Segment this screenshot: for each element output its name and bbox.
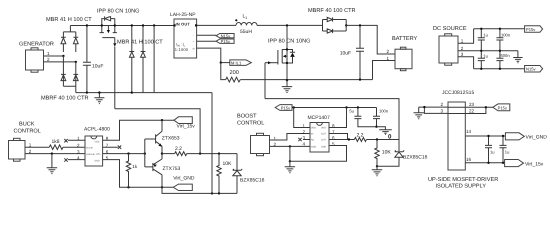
wire ACPL pin5 to Virt_GND rail (103, 160, 174, 188)
ground (dc source mid) (513, 51, 522, 63)
node caps bottom (375, 126, 377, 128)
svg-text:P15v: P15v (498, 105, 508, 110)
svg-text:Virt_GND: Virt_GND (526, 135, 548, 141)
svg-text:JCCJ0812S15: JCCJ0812S15 (442, 90, 474, 96)
node C9 top (487, 135, 489, 137)
svg-text:MCP1407: MCP1407 (308, 115, 330, 121)
wire MCP pin5 ground loop (290, 146, 347, 162)
node ZTX653 collector tap (161, 119, 163, 121)
svg-text:GND: GND (311, 146, 316, 149)
node M2 diode bottom (286, 62, 288, 64)
svg-text:1:1000: 1:1000 (175, 47, 189, 52)
svg-text:UP-SIDE MOSFET-DRIVER: UP-SIDE MOSFET-DRIVER (428, 177, 498, 183)
svg-text:3: 3 (77, 150, 80, 155)
net flag P15v (216, 39, 234, 44)
transistor M1 IPP 80 CN 10NG body diode (102, 16, 115, 25)
svg-text:IPP 80 CN 10NG: IPP 80 CN 10NG (97, 9, 140, 15)
isolated supply U4 JCCJ0812S15 (441, 90, 475, 170)
zener D9 BZX85C16 (buck) (233, 154, 265, 194)
transistor M2 IPP 80 CN 10NG (265, 25, 295, 80)
capacitor C7 5u (349, 108, 376, 127)
svg-text:MBRF 40 100 CTR: MBRF 40 100 CTR (308, 8, 356, 14)
node bridge mid-right (75, 61, 77, 63)
node MCP pin1 riser tap (293, 106, 295, 108)
diode bridge D2 (top-right) (73, 32, 78, 52)
svg-text:MBR 41 H 100 CT: MBR 41 H 100 CT (46, 17, 92, 23)
node gate riser tap (199, 152, 201, 154)
capacitor C9 1u (485, 136, 495, 163)
transistor Q2 ZTX753 (145, 154, 181, 188)
diode D7 MBRF (top) (323, 17, 347, 21)
dc source V1 (433, 26, 467, 65)
wire dc pin1 up to P15v rail (458, 29, 474, 44)
node 10K tap (218, 152, 220, 154)
wire boost pin2 to MCP pin4 (270, 145, 311, 147)
wire bridge bottom bar to bottom rail (63, 81, 75, 93)
pin7 stub with no-connect (103, 146, 122, 149)
wire ground riser (289, 146, 291, 161)
node rail tap to virtual ground riser (153, 24, 155, 26)
diode D5 MBR (left) (129, 26, 134, 93)
svg-text:GND: GND (95, 159, 100, 162)
wire M2 gate riser (264, 63, 266, 99)
wire dc pin3 down to N15v rail (458, 57, 474, 69)
svg-text:CONTROL: CONTROL (14, 129, 41, 135)
capacitor C10 1u (500, 136, 510, 163)
svg-text:1: 1 (47, 51, 50, 56)
svg-text:2.2: 2.2 (175, 146, 182, 152)
wire base riser (144, 139, 146, 167)
svg-text:Anode: Anode (86, 147, 93, 150)
svg-text:2.2: 2.2 (357, 132, 364, 138)
diode bridge D4 (bottom-right) (73, 62, 78, 81)
svg-text:10uF: 10uF (340, 51, 351, 57)
svg-text:Virt_15v: Virt_15v (177, 124, 196, 130)
wire P15v rail (474, 28, 525, 30)
node bottom rail riser tap (211, 192, 213, 194)
node cap C1 bottom (86, 91, 88, 93)
wire R4 to gate node (187, 153, 237, 155)
ground (M2 source) (282, 80, 292, 92)
svg-text:55uH: 55uH (240, 29, 252, 35)
net flag N15v (216, 33, 234, 38)
node D5 bottom (131, 91, 133, 93)
capacitor C4 100n (496, 29, 510, 51)
ground (driver caps) (377, 127, 392, 135)
wire LAH out to inductor (197, 24, 236, 26)
wire ACPL pin8 to Virt_15v rail (103, 120, 174, 140)
wire buck gate loop (riser and top run) (115, 109, 200, 154)
wire rail diode pair to battery corner (346, 25, 395, 54)
svg-text:N15v: N15v (221, 33, 232, 38)
wire source rail (200 to battery branch) (240, 79, 372, 81)
svg-text:BZX85C16: BZX85C16 (240, 177, 265, 183)
node base drive / 1k tap (127, 152, 129, 154)
svg-text:2: 2 (77, 143, 80, 148)
wire LAH pin plus to P15v (197, 40, 217, 42)
svg-text:1k: 1k (132, 164, 138, 169)
wire JCCJ pins 23,22 to P15v (448, 107, 493, 113)
node C4 top (499, 28, 501, 30)
net flag P15v (boost driver) (275, 105, 292, 111)
svg-text:OTL: OTL (96, 153, 101, 156)
wire generator pin1 to bridge left column (44, 55, 64, 57)
wire bridge top bar and stub to rail (63, 26, 75, 32)
ground (buck control) (47, 154, 57, 174)
svg-text:VDD: VDD (95, 141, 100, 144)
wire generator pin2 to bridge right column (44, 61, 76, 63)
svg-text:IN OUT: IN OUT (176, 22, 191, 27)
svg-text:500n: 500n (501, 53, 511, 58)
net flag P15v (dc source) (525, 26, 543, 33)
wire JCCJ pin16 to Virt_15v (465, 162, 504, 164)
svg-text:Cathode: Cathode (86, 153, 95, 156)
ground (bridge bottom rail) (94, 93, 104, 104)
boost control source (237, 113, 277, 155)
battery B1 (387, 36, 418, 71)
node C3 bottom (480, 50, 482, 52)
svg-text:OUT: OUT (321, 133, 326, 136)
capacitor C1 10uF (83, 26, 104, 93)
svg-text:16: 16 (466, 157, 472, 162)
ground (JCCJ input) (414, 107, 424, 119)
node 5u cap tap (357, 106, 359, 108)
node pin5 return tap (289, 160, 291, 162)
resistor R2 1k8 (49, 139, 63, 149)
wire MCP pin7 join pin6 (329, 134, 348, 140)
node C2 bottom (359, 78, 361, 80)
wire bottom rail (bridge to corner) (76, 92, 212, 94)
node C9 bottom (487, 162, 489, 164)
svg-text:BOOST: BOOST (237, 113, 257, 119)
transistor Q1 ZTX653 (145, 120, 180, 153)
wire R6 to gate corner (366, 139, 399, 141)
wire ACPL pin6 base drive (103, 153, 146, 155)
wire inductor to diode pair (257, 24, 323, 26)
node C10 bottom (502, 162, 504, 164)
svg-text:GND: GND (321, 146, 326, 149)
wire top rail (bridge to LAH) (70, 25, 174, 27)
wire emitter node to R4 (162, 153, 175, 155)
node C4 bottom (499, 50, 501, 52)
node D6 top (142, 24, 144, 26)
resistor R3 1k (126, 154, 138, 188)
wire buck pin1 to 1k8 (25, 146, 49, 148)
node D5 top (131, 24, 133, 26)
svg-text:2: 2 (303, 130, 306, 135)
wire boost gate return (bottom to right riser) (265, 99, 399, 140)
pin1 stub with no-connect (64, 139, 85, 142)
svg-text:100n: 100n (379, 108, 389, 113)
resistor R1 200 (226, 70, 241, 82)
svg-text:100n: 100n (501, 33, 511, 38)
node bridge mid-left (62, 55, 64, 57)
resistor R6 2.2 (boost gate) (354, 132, 366, 141)
wire JCCJ pin3 joins pin2 (424, 107, 448, 113)
node M2 drain on rail (286, 24, 288, 26)
wire P15v rail (boost driver) (292, 107, 377, 109)
svg-text:2: 2 (387, 49, 390, 54)
ground (boost gate clamp) (372, 166, 382, 175)
svg-text:IPP 80 CN 10NG: IPP 80 CN 10NG (268, 39, 311, 45)
svg-text:Virt_GND: Virt_GND (173, 176, 195, 182)
svg-text:200: 200 (230, 70, 239, 76)
node 10K boost tap (376, 138, 378, 140)
wire node down to resistor R200 (221, 63, 226, 80)
node M2 diode top (286, 48, 288, 50)
node M1 drain on rail (101, 24, 103, 26)
wire N15v rail (474, 68, 525, 70)
svg-text:M: M (193, 47, 195, 50)
svg-text:3: 3 (441, 108, 444, 113)
svg-text:2: 2 (461, 46, 464, 51)
svg-text:BZX85C16: BZX85C16 (403, 155, 428, 161)
svg-text:NC: NC (311, 139, 315, 142)
svg-text:1k8: 1k8 (52, 139, 60, 145)
capacitor C2 10uF (battery side) (340, 25, 364, 79)
svg-text:1u: 1u (490, 150, 495, 155)
node C6 bottom (499, 68, 501, 70)
diode D6 MBR (right) (141, 26, 146, 93)
node M1 source on rail (114, 24, 116, 26)
wire riser main return (211, 93, 213, 194)
wire MCP pin8 to P15v rail (329, 108, 347, 128)
wire node to M IL1 flag (222, 62, 230, 64)
svg-text:1u: 1u (483, 33, 488, 38)
pin4 stub with no-connect (64, 158, 85, 161)
svg-text:Virt_15v: Virt_15v (525, 161, 544, 167)
wire riser from top rail down to bottom rail (153, 26, 155, 93)
svg-text:ACPL-4800: ACPL-4800 (84, 126, 110, 132)
generator G1 (19, 42, 54, 73)
svg-text:23: 23 (469, 102, 475, 107)
svg-text:IN: IN (311, 133, 314, 136)
svg-text:5u: 5u (349, 108, 354, 113)
svg-text:ZTX753: ZTX753 (163, 166, 181, 172)
inductor L1 55uH (235, 14, 257, 36)
capacitor C8 100n (373, 108, 389, 127)
wire battery pin1 return (373, 61, 396, 80)
svg-text:ZTX653: ZTX653 (162, 136, 180, 142)
pin3 stub with no-connect (298, 138, 310, 141)
svg-text:22: 22 (469, 108, 475, 113)
buck control source (9, 122, 41, 162)
svg-text:CONTROL: CONTROL (237, 120, 264, 126)
svg-text:P15v: P15v (281, 106, 291, 111)
node 1k bottom (127, 186, 129, 188)
node base riser (144, 152, 146, 154)
svg-text:2: 2 (47, 57, 50, 62)
svg-text:10K: 10K (223, 161, 233, 167)
node C5 bottom (480, 68, 482, 70)
wire diode pair side bars (323, 20, 347, 32)
wire MCP pin1 to P15v rail (294, 108, 310, 128)
node C10 top (502, 135, 504, 137)
node ground tap (98, 91, 100, 93)
wire boost pin1 to MCP pin2 (270, 134, 311, 141)
wire 1k8 to ACPL pin2 (63, 146, 85, 148)
diode bridge D1 (top-left, MBR 41 H 100 CT) (61, 32, 66, 52)
node cap C1 top (86, 24, 88, 26)
wire buck driver bottom rail (162, 187, 237, 193)
node MCP pin8 riser tap (345, 106, 347, 108)
node C2 top (359, 24, 361, 26)
node ZTX753 collector tap (161, 186, 163, 188)
wire LAH pin minus to N15v (197, 34, 217, 36)
svg-text:4: 4 (303, 142, 306, 147)
svg-text:DC SOURCE: DC SOURCE (433, 26, 467, 32)
svg-text:BUCK: BUCK (19, 122, 35, 128)
svg-text:LAH-25-NP: LAH-25-NP (170, 12, 196, 18)
node M2 source on rail (286, 79, 288, 81)
wire JCCJ pin2 to ground (419, 106, 448, 108)
svg-text:VDD: VDD (321, 127, 326, 130)
wire MCP pin6 output (329, 139, 354, 141)
node measure tap (220, 61, 222, 63)
wire buck pin2 to ACPL pin3 (25, 153, 85, 155)
capacitor C3 1u (478, 29, 488, 51)
node 10K boost bottom (376, 165, 378, 167)
wire dc pin2 mid rail (458, 50, 518, 52)
svg-text:10uF: 10uF (92, 63, 103, 69)
svg-text:ISOLATED SUPPLY: ISOLATED SUPPLY (436, 184, 487, 190)
wire M1 gate lead down (114, 47, 116, 109)
capacitor C6 500n (496, 51, 510, 69)
resistor R4 2.2 (buck gate) (175, 146, 187, 156)
svg-text:2: 2 (441, 102, 444, 107)
svg-text:P15v: P15v (221, 39, 231, 44)
net flag M IL1 (230, 60, 252, 66)
net flag Virt_GND (173, 176, 195, 191)
node C3 top (480, 28, 482, 30)
svg-text:MBRF 40 100 CTR: MBRF 40 100 CTR (41, 95, 89, 101)
svg-text:VDD: VDD (311, 127, 316, 130)
node output tap (348, 138, 350, 140)
node pins 23-22 join (485, 106, 487, 108)
zener D10 BZX85C16 (boost) (377, 140, 428, 167)
wire JCCJ pin14 to Virt_GND (465, 135, 505, 137)
svg-text:14: 14 (466, 129, 472, 134)
svg-text:P15v: P15v (526, 27, 536, 32)
svg-text:BATTERY: BATTERY (392, 36, 418, 42)
net flag P15v (JCCJ) (493, 104, 510, 111)
net flag Virt_15v (JCCJ) (505, 160, 544, 168)
current sensor U1 LAH-25-NP (170, 12, 197, 58)
node emitter output (161, 152, 163, 154)
transistor M1 channel and gate (100, 26, 117, 47)
resistor R5 10K (buck gate) (217, 154, 232, 194)
node buck return tap (51, 152, 53, 154)
gate driver U3 MCP1407 (303, 115, 336, 152)
node boost ground tap (289, 145, 291, 147)
wire LAH pin M to measure node (197, 48, 221, 63)
svg-text:1u: 1u (505, 150, 510, 155)
ground (boost driver) (285, 161, 295, 172)
svg-text:GENERATOR: GENERATOR (19, 42, 54, 48)
diode bridge D3 (bottom-left) (61, 56, 66, 81)
net flag N15v (dc source) (525, 66, 543, 73)
diode D8 MBRF (bottom) (323, 29, 347, 33)
node diode pair output (345, 24, 347, 26)
net flag Virt_15v (174, 117, 195, 130)
opto driver U2 ACPL-4800 (77, 126, 110, 166)
node 10K bottom (218, 192, 220, 194)
resistor R7 10K (boost gate) (375, 140, 392, 167)
svg-text:10K: 10K (382, 150, 392, 156)
svg-text:MBR 41 H 100 CT: MBR 41 H 100 CT (117, 40, 163, 46)
svg-text:OUT: OUT (321, 139, 326, 142)
net flag Virt_GND (JCCJ) (505, 133, 547, 141)
capacitor C5 1u (478, 51, 488, 69)
node JCCJ input join (423, 106, 425, 108)
svg-text:M IL1: M IL1 (231, 60, 242, 65)
svg-text:N15v: N15v (526, 67, 537, 72)
